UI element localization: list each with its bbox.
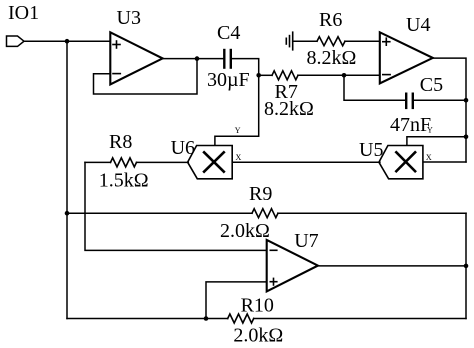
multiplier U6 [188,146,233,179]
svg-text:47nF: 47nF [390,114,431,136]
wire C5 right plate to rail [413,99,466,101]
node junction U7 output [464,264,469,269]
svg-text:U6: U6 [171,137,195,159]
node junction R9 left [65,211,70,216]
resistor R10 (bottom rail) [67,314,466,323]
resistor R8 [85,158,188,167]
svg-text:U5: U5 [359,139,383,161]
wire U4 output to right rail [433,58,466,162]
ground symbol (R6 left) [286,32,292,50]
wire C5 branch from U4 -in [344,75,406,100]
svg-text:2.0kΩ: 2.0kΩ [220,220,270,242]
multiplier U5 [379,146,423,179]
node junction U7 +in tap [204,316,209,321]
node junction R7/C5 tap [342,73,347,78]
wire U3 output to C4 [163,58,225,60]
capacitor C5 [406,94,413,108]
svg-text:8.2kΩ: 8.2kΩ [307,47,357,69]
node junction at IO1 wire [65,39,70,44]
resistor R9 [67,209,466,218]
svg-text:1.5kΩ: 1.5kΩ [99,170,149,192]
svg-text:R8: R8 [109,131,132,153]
svg-text:2.0kΩ: 2.0kΩ [233,325,283,347]
wire R9 right down to U7 output rail [465,213,467,318]
IO1 port connector [7,36,25,46]
wire IO1 to U3 +in [24,40,110,42]
wire U5 output to rail [423,161,466,163]
node junction U5 Y tap [464,135,469,140]
wire R8 left to U7 -in [85,162,267,250]
svg-text:8.2kΩ: 8.2kΩ [264,98,314,120]
wire left rail vertical [66,41,68,318]
svg-text:IO1: IO1 [8,2,39,24]
svg-text:X: X [426,153,432,162]
svg-text:30µF: 30µF [207,69,250,91]
resistor R6 [293,37,380,46]
wire C4 to corner and down to U6 Y jog [215,59,259,146]
node junction U3 output [195,56,200,61]
node junction C5 right [464,98,469,103]
svg-text:Y: Y [427,126,433,135]
svg-text:R9: R9 [249,183,272,205]
svg-text:C4: C4 [217,22,240,44]
svg-text:R10: R10 [241,295,274,317]
resistor R7 [259,71,380,80]
op-amp U4 [380,32,433,83]
node junction R7 left [256,73,261,78]
svg-text:C5: C5 [420,74,443,96]
op-amp U7 [267,240,318,292]
wire U7 output [318,265,466,267]
svg-text:R6: R6 [319,9,342,31]
wire U5 Y input jog [407,137,466,146]
svg-text:U7: U7 [294,230,318,252]
svg-text:Y: Y [235,126,241,135]
op-amp U3 [110,32,162,84]
wire U7 +in branch [206,282,267,319]
capacitor C4 [224,50,231,68]
svg-text:U3: U3 [117,7,141,29]
wire U3 feedback loop [94,59,198,94]
wire U6 to U5 [232,161,380,163]
svg-text:X: X [236,153,242,162]
svg-text:U4: U4 [406,14,430,36]
